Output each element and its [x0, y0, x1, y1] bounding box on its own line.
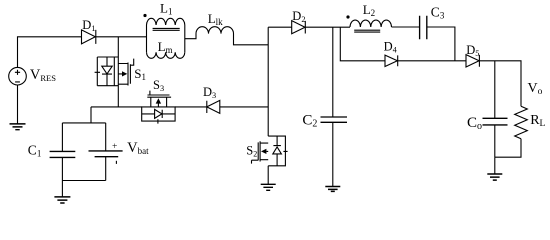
svg-text:D1: D1 — [82, 18, 95, 33]
svg-text:D3: D3 — [203, 85, 216, 100]
ground (C2) — [325, 187, 340, 192]
svg-text:Llk: Llk — [208, 11, 223, 27]
wire battery riser — [62, 107, 105, 123]
svg-text:S1: S1 — [134, 66, 146, 82]
wire C1 leads — [61, 123, 63, 181]
wire C3 down to D5 row — [427, 27, 455, 61]
polarity dot L2 — [346, 15, 349, 18]
diode D4 — [385, 55, 398, 66]
wire D4 branch — [340, 27, 385, 61]
wire D5 to RL column — [479, 61, 521, 107]
wire Co bottom — [495, 125, 521, 157]
body diode loop S1 — [95, 57, 119, 86]
wire C2 branch — [332, 27, 334, 117]
svg-text:L2: L2 — [363, 2, 375, 18]
svg-text:D4: D4 — [384, 40, 398, 55]
transistor S2 — [252, 141, 269, 163]
svg-text:Vbat: Vbat — [127, 140, 149, 156]
wire S1 drain column — [117, 37, 119, 107]
ground (VRES) — [10, 124, 26, 130]
body diode loop S3 — [142, 107, 175, 124]
svg-text:VRES: VRES — [30, 67, 56, 83]
wire S2 source — [267, 166, 269, 184]
polarity dot L1 — [143, 14, 146, 17]
svg-text:C3: C3 — [431, 5, 445, 21]
svg-text:RL: RL — [530, 113, 545, 129]
ground (Co) — [487, 174, 502, 180]
transistor S1 — [118, 59, 133, 86]
capacitor C2 — [321, 117, 348, 122]
wire top-right rail — [268, 26, 350, 28]
wire VRES to ground — [17, 85, 19, 124]
transistor S3 — [147, 91, 171, 107]
wire Co branch — [494, 61, 496, 118]
svg-text:L1: L1 — [160, 0, 172, 16]
wire L2 to C3 — [392, 26, 420, 28]
wire bottom battery bus — [62, 180, 105, 182]
inductor Llk — [185, 27, 268, 45]
ground (S2) — [261, 184, 276, 190]
capacitor C3 — [420, 16, 427, 40]
source VRES — [9, 67, 27, 85]
svg-text:Lm: Lm — [158, 39, 173, 55]
capacitor Co — [483, 118, 508, 125]
diode D2 — [292, 21, 306, 34]
node column (Llk/D2/D3/S2 junction) — [267, 27, 269, 136]
wire ground stem C1 — [61, 181, 63, 197]
svg-text:Co: Co — [467, 115, 482, 132]
coupled inductor L1/Lm — [147, 18, 185, 58]
svg-text:C2: C2 — [302, 112, 317, 129]
wire D4 to D5 — [398, 60, 466, 62]
svg-text:Vo: Vo — [528, 81, 543, 97]
ground (C1/Vbat) — [54, 197, 70, 203]
wire top-left rail — [18, 37, 147, 68]
wire Co ground stem — [494, 157, 496, 174]
wire Vbat leads — [105, 123, 107, 181]
body diode loop S2 — [268, 136, 287, 166]
resistor RL — [515, 106, 528, 138]
inductor L2 — [350, 20, 392, 27]
svg-text:C1: C1 — [28, 143, 42, 159]
svg-text:D2: D2 — [292, 9, 305, 24]
svg-text:S3: S3 — [153, 78, 164, 93]
battery minus tick — [115, 161, 117, 164]
diode D1 — [82, 30, 96, 44]
svg-text:S2: S2 — [246, 144, 257, 159]
diode D3 — [207, 100, 220, 113]
wire C2 to ground — [332, 122, 334, 186]
wire mid row — [91, 106, 268, 108]
core lines L2 — [354, 30, 380, 32]
capacitor C1 — [50, 151, 76, 157]
svg-text:D5: D5 — [466, 43, 479, 58]
svg-text:+: + — [112, 142, 117, 152]
diode D5 — [466, 55, 479, 67]
battery Vbat — [89, 150, 123, 152]
